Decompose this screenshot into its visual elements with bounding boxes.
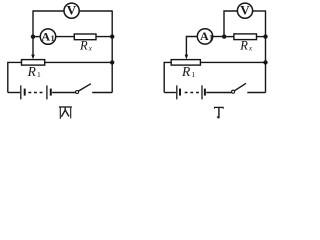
wire: voltmeter right lead to right vertical: [253, 10, 266, 12]
ammeter A1 (right circuit): [197, 29, 212, 44]
wire: left branch from A1 down to rheostat wiper: [186, 37, 197, 56]
wire: Rx to right vertical: [257, 36, 266, 38]
svg-text:1: 1: [51, 34, 55, 43]
rheostat R1 (right circuit): [171, 60, 200, 66]
wire: R1 right lead to right vertical: [45, 61, 113, 63]
rheostat R1 (left circuit): [22, 60, 45, 66]
svg-text:1: 1: [191, 70, 195, 79]
wiper arrowhead onto R1 (right circuit): [185, 55, 189, 60]
svg-text:R: R: [239, 38, 248, 52]
wire: dot to ammeter: [33, 36, 40, 38]
svg-text:1: 1: [37, 70, 41, 79]
wire: battery to switch: [52, 92, 75, 94]
svg-text:R: R: [181, 64, 191, 79]
resistor Rx (left circuit): [74, 34, 96, 40]
switch S (right circuit): [232, 90, 235, 93]
battery cell plates (left circuit): [20, 85, 22, 99]
wire: R1 left lead and left vertical: [8, 62, 22, 92]
voltmeter V (right circuit): [237, 3, 252, 18]
svg-text:R: R: [27, 64, 37, 79]
wire: R1 left lead and left vertical (right circuit): [164, 62, 171, 92]
wire: top row right segment from voltmeter: [79, 10, 112, 12]
wire: ammeter to Rx: [56, 36, 75, 38]
wire: switch to bottom right corner (right circuit): [247, 92, 265, 94]
svg-text:1: 1: [209, 34, 213, 43]
wire: left riser from top row down through node to rheostat wiper: [32, 10, 34, 55]
node: junction dot R1 row right (right circuit): [263, 60, 267, 64]
wire: ammeter to node: [213, 36, 225, 38]
wire: voltmeter left riser: [224, 11, 237, 37]
wire: top row left segment to voltmeter: [33, 10, 64, 12]
node: junction dot left of Rx (right circuit): [222, 34, 226, 38]
wire: node to Rx: [224, 36, 234, 38]
wire: R1 right lead to right vertical: [200, 61, 265, 63]
wire: bottom row left to battery: [8, 92, 20, 94]
wire: Rx to right vertical: [96, 36, 112, 38]
battery cell plates (right circuit): [176, 85, 178, 99]
svg-text:x: x: [88, 44, 93, 52]
wire: bottom row left to battery (right circuit): [164, 92, 176, 94]
wire: right vertical of left circuit: [111, 10, 113, 92]
node: junction dot right of Rx: [263, 34, 267, 38]
wire: switch to bottom right corner: [92, 92, 112, 94]
node: junction dot left of A1: [31, 35, 35, 39]
wiper arrowhead onto R1: [31, 55, 35, 60]
svg-text:A: A: [200, 29, 209, 43]
node: junction dot right end of measuring row: [110, 34, 114, 38]
svg-text:x: x: [248, 44, 253, 52]
node: junction dot R1 row right: [110, 60, 114, 64]
svg-text:A: A: [41, 30, 50, 44]
svg-text:V: V: [240, 3, 250, 18]
switch S (left circuit): [76, 91, 79, 94]
voltmeter V (left circuit): [64, 3, 79, 18]
label ding (Chinese caption, drawn as strokes): [214, 107, 224, 118]
svg-text:R: R: [79, 38, 88, 52]
wire: right vertical of right circuit: [265, 10, 267, 92]
resistor Rx (right circuit): [234, 34, 257, 40]
svg-text:V: V: [67, 3, 77, 18]
ammeter A1 (left circuit): [40, 29, 55, 44]
label bing (Chinese caption, drawn as strokes): [59, 107, 72, 119]
wire: battery to switch (right circuit): [206, 92, 231, 94]
